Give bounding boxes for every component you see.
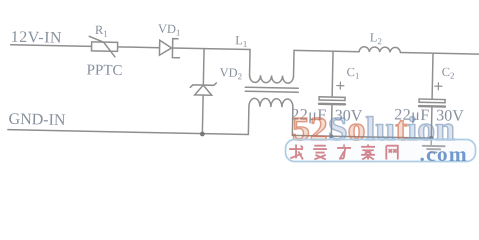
svg-text:C1: C1: [346, 65, 359, 81]
svg-text:GND-IN: GND-IN: [8, 111, 66, 129]
svg-text:VD2: VD2: [219, 65, 242, 81]
svg-text:L2: L2: [370, 30, 382, 46]
svg-text:VD1: VD1: [158, 22, 181, 38]
svg-text:C2: C2: [441, 65, 454, 81]
svg-text:PPTC: PPTC: [86, 62, 122, 79]
svg-text:12V-IN: 12V-IN: [11, 29, 63, 47]
svg-text:.com: .com: [420, 142, 468, 166]
svg-text:R1: R1: [95, 23, 108, 39]
svg-text:L1: L1: [235, 33, 247, 49]
